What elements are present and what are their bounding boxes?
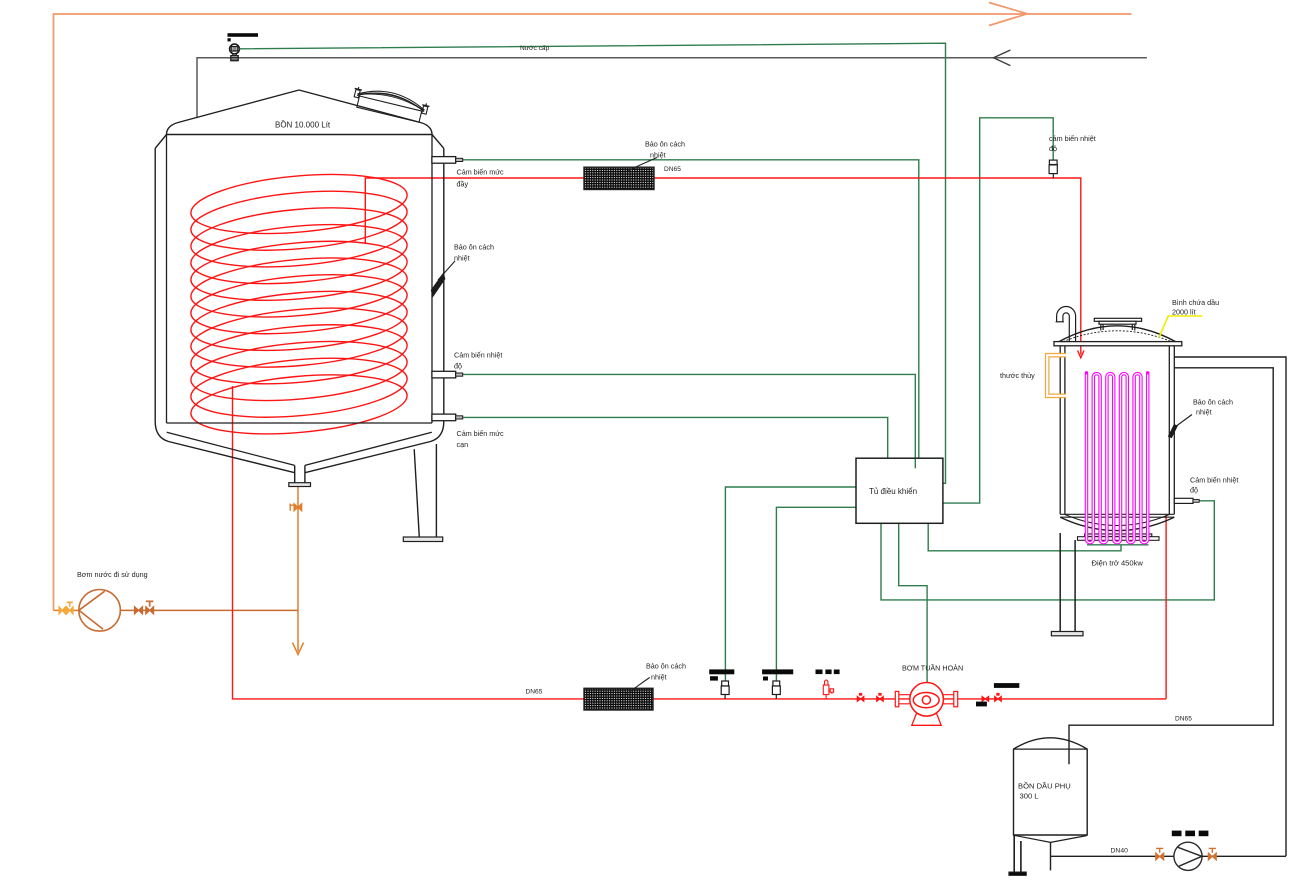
- drain valve under tank: [290, 504, 302, 512]
- wire: service water header top: [54, 14, 1132, 610]
- wire: hot oil supply coil feed: [365, 178, 1081, 355]
- hatch box: insulation on bottom oil line: [584, 688, 653, 710]
- svg-text:DN65: DN65: [1175, 716, 1192, 723]
- level gauge thước thủy (orange bracket): [1047, 355, 1066, 396]
- auxiliary oil tank BỒN DẦU PHỤ shell: [1014, 738, 1088, 835]
- pressure instrument 1 on oil return: [709, 669, 734, 699]
- vessel dished bottom: [1060, 517, 1174, 530]
- tank weld line: [1014, 748, 1088, 750]
- svg-text:độ: độ: [1190, 486, 1198, 495]
- svg-text:BỒN DẦU PHỤ: BỒN DẦU PHỤ: [1018, 781, 1071, 791]
- control cabinet Tủ điều khiển: [856, 458, 943, 523]
- vessel Bình chứa dầu shell walls: [1060, 346, 1174, 515]
- svg-text:Bảo ôn cách: Bảo ôn cách: [646, 662, 686, 671]
- svg-text:độ: độ: [1049, 144, 1057, 153]
- insulation mark on tank wall: [431, 272, 446, 297]
- svg-text:Điện trở 450kw: Điện trở 450kw: [1092, 559, 1144, 568]
- wire: element bus under heater: [1087, 544, 1149, 546]
- drain arrow head: [293, 643, 304, 655]
- orange valve on DN40 left: [1156, 848, 1164, 860]
- tank rim and chamfers: [155, 135, 444, 149]
- wire: coil return to circulation pump: [233, 386, 1167, 699]
- flow arrow right on top header: [989, 3, 1027, 26]
- globe valve right of pump 2: [995, 693, 1002, 702]
- vessel top flange: [1054, 342, 1182, 346]
- svg-text:BƠM TUẦN HOÀN: BƠM TUẦN HOÀN: [902, 663, 963, 673]
- svg-text:nhiệt: nhiệt: [650, 151, 666, 160]
- svg-text:đầy: đầy: [457, 180, 469, 189]
- valve on discharge 1: [135, 607, 143, 614]
- svg-text:Cảm biến nhiệt: Cảm biến nhiệt: [454, 351, 502, 360]
- pipe: vessel top to DN40 return (outer): [1174, 357, 1286, 856]
- svg-text:cạn: cạn: [457, 440, 469, 449]
- bar below line right of pump: [976, 702, 987, 707]
- tank right foot: [403, 537, 442, 542]
- pipe: DN40 return line: [1051, 855, 1287, 857]
- hatch box: insulation on top oil line: [584, 167, 654, 189]
- pressure instrument 2 on oil return: [762, 669, 793, 699]
- safety valve (red): [823, 680, 833, 699]
- wire: control box to circulation pump: [899, 523, 927, 682]
- svg-text:nhiệt: nhiệt: [454, 254, 470, 263]
- tank right leg: [414, 444, 436, 537]
- DN40 transfer pump: [1174, 842, 1202, 870]
- svg-text:Bảo ôn cách: Bảo ôn cách: [454, 243, 494, 252]
- leader line insulation (top pipe): [626, 158, 657, 172]
- wire: vessel temperature sensor to control box: [881, 501, 1214, 600]
- svg-text:Tủ điều khiển: Tủ điều khiển: [869, 487, 917, 496]
- nozzle: high level sensor: [432, 157, 463, 164]
- vessel dome head: [1059, 326, 1176, 342]
- wire: tank drain down-pipe with arrow: [297, 487, 299, 652]
- orange valve on DN40 right: [1208, 848, 1216, 860]
- svg-text:Bảo ôn cách: Bảo ôn cách: [1193, 398, 1233, 407]
- wire: pump suction stub: [54, 609, 80, 611]
- svg-text:300 L: 300 L: [1020, 792, 1039, 801]
- tank outer walls and cone: [155, 148, 444, 472]
- wire stub inside cabinet: [914, 459, 916, 469]
- svg-text:độ: độ: [454, 362, 462, 371]
- tank bottom nozzle: [295, 465, 305, 482]
- gate valve left of pump 1: [857, 693, 864, 702]
- wire: high level sensor to control box: [463, 160, 919, 458]
- float valve on supply line: [230, 44, 240, 61]
- vessel top capped nozzle: [1094, 318, 1141, 330]
- three dashes above DN40 pump: [1172, 831, 1209, 837]
- heater elements (magenta serpentine): [1085, 371, 1150, 543]
- svg-text:BỒN 10.000 Lít: BỒN 10.000 Lít: [275, 120, 331, 130]
- svg-text:2000 lít: 2000 lít: [1172, 308, 1196, 317]
- nozzle: temperature sensor: [432, 371, 463, 378]
- yellow leader to vessel label: [1159, 316, 1202, 337]
- svg-text:cảm biến nhiệt: cảm biến nhiệt: [1049, 134, 1096, 143]
- tank outlet stub: [1050, 842, 1052, 870]
- dome weld seam (dashed): [1063, 331, 1172, 342]
- gate valve left of pump 2: [877, 693, 884, 702]
- leader line insulation (bottom pipe): [627, 678, 650, 694]
- nozzle: vessel temperature sensor: [1174, 498, 1199, 503]
- wire: pump discharge to tank drain junction: [120, 609, 298, 611]
- wire: vessel bottom to pump line: [1165, 515, 1167, 699]
- vessel left leg: [1060, 533, 1075, 632]
- pipe: vessel top to DN65 small tank fill (inner): [1069, 368, 1273, 765]
- svg-text:Cảm biến mức: Cảm biến mức: [457, 429, 505, 438]
- circulation pump BƠM TUẦN HOÀN: [895, 683, 957, 726]
- vent hook pipe: [1056, 307, 1076, 342]
- wire: tank temperature sensor to control box: [463, 374, 915, 468]
- svg-text:DN65: DN65: [664, 166, 681, 173]
- heater element flange: [1078, 534, 1160, 540]
- leader line insulation (vessel): [1175, 415, 1192, 428]
- tank cone bottom: [1014, 835, 1087, 842]
- wire: control box to pipe thermo sensor loop: [943, 118, 1053, 503]
- arrow into vessel: [1078, 351, 1084, 358]
- svg-text:Bảo ôn cách: Bảo ôn cách: [645, 140, 685, 149]
- insulation mark on vessel wall: [1168, 424, 1178, 438]
- leader line insulation (tank): [438, 261, 455, 280]
- pipe thermowell sensor on red line (top): [1049, 160, 1057, 178]
- svg-text:thước thủy: thước thủy: [1000, 371, 1035, 380]
- instrument square above fill valve: [228, 38, 231, 41]
- wire: fill valve to control box (via x=945): [240, 43, 946, 483]
- wire: nuoc cap supply header: [197, 58, 1147, 118]
- svg-text:Cảm biến mức: Cảm biến mức: [457, 168, 505, 177]
- flow arrow left on supply header: [994, 50, 1011, 66]
- valve on suction 2 (globe with handle): [67, 602, 74, 614]
- svg-text:Cảm biến nhiệt: Cảm biến nhiệt: [1190, 476, 1238, 485]
- nozzle: low level sensor: [432, 414, 463, 421]
- three dash marks: [816, 670, 840, 675]
- small tank leg: [1014, 835, 1021, 872]
- bar above right valves: [994, 683, 1019, 688]
- svg-text:Bình chứa dầu: Bình chứa dầu: [1172, 298, 1219, 307]
- wire: control box to pressure instrument 1: [725, 487, 857, 681]
- svg-text:nhiệt: nhiệt: [1196, 408, 1212, 417]
- wire: control box to pressure instrument 2: [776, 507, 857, 681]
- svg-text:nhiệt: nhiệt: [651, 673, 667, 682]
- small tank foot: [1009, 872, 1026, 875]
- wire: control box to heater elements: [928, 523, 1121, 551]
- wire: low level sensor to control box: [463, 417, 888, 458]
- manhole on roof: [350, 84, 430, 124]
- svg-text:Bơm nước đi sử dụng: Bơm nước đi sử dụng: [77, 570, 148, 579]
- heating coil inside big tank: [188, 167, 409, 442]
- gate valve right of pump 1: [982, 696, 989, 701]
- tank bottom flange: [289, 483, 311, 487]
- vessel foot: [1051, 632, 1083, 636]
- svg-text:Nước cấp: Nước cấp: [520, 43, 550, 52]
- valve on suction 1: [59, 607, 66, 614]
- svg-text:DN65: DN65: [526, 689, 543, 696]
- vessel bottom seam: [1060, 514, 1174, 517]
- instrument bar above fill valve: [228, 33, 259, 37]
- svg-text:DN40: DN40: [1111, 848, 1129, 855]
- tank inner walls and bottom: [167, 135, 433, 466]
- pump Bơm nước đi sử dụng: [79, 590, 121, 632]
- tank BỒN 10.000 Lít roof: [167, 90, 433, 135]
- valve on discharge 2 (globe with handle): [146, 601, 154, 614]
